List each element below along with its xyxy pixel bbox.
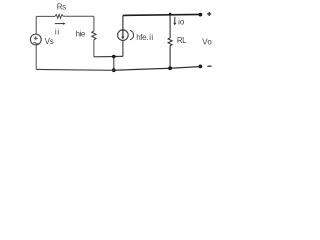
wire mid junction to bottom rail [113,57,115,71]
svg-text:io: io [178,17,185,26]
Vs plus polarity mark [34,36,38,40]
resistor RL [168,38,172,46]
terminal dot bottom right [199,65,203,69]
svg-text:Vo: Vo [202,38,212,47]
terminal dot top right [199,13,203,17]
current source arrow [122,30,124,37]
junction dot RL top [169,13,172,16]
wire top left rail [36,15,55,17]
wire RL bottom lead [169,46,171,69]
svg-text:ii: ii [149,33,153,42]
wire RL top lead [169,15,171,38]
svg-text:hfe.: hfe. [136,33,148,42]
current arrow io [174,17,176,24]
label plus terminal [207,12,211,16]
wire bottom rail right [114,67,202,71]
wire hie bottom lead [93,40,95,57]
wire Vs bottom lead [35,45,37,70]
svg-text:hie: hie [76,30,86,39]
junction dot bottom rail [112,68,116,72]
wire current source top lead [122,15,124,29]
wire current source bottom lead [122,40,124,56]
svg-text:Rs: Rs [57,3,66,12]
svg-text:Vs: Vs [45,37,54,46]
svg-text:RL: RL [177,36,187,45]
resistor hie [92,31,96,39]
wire bottom rail left [36,68,114,71]
resistor Rs [55,15,63,19]
Vs sine mark [33,42,38,44]
current source hfe ii [118,30,129,41]
label minus terminal [207,65,211,67]
junction dot mid rail [112,55,116,59]
wire hie top lead [93,16,95,31]
current source right arc [130,30,134,39]
svg-text:ii: ii [55,27,60,36]
voltage source Vs [30,34,41,45]
wire Vs top lead [35,16,37,34]
junction dot RL bottom [168,66,172,70]
wire Rs to hie [63,15,94,17]
wire mid rail hie to current source [94,55,123,57]
wire top right rail [123,14,202,15]
current arrow ii [55,23,64,25]
